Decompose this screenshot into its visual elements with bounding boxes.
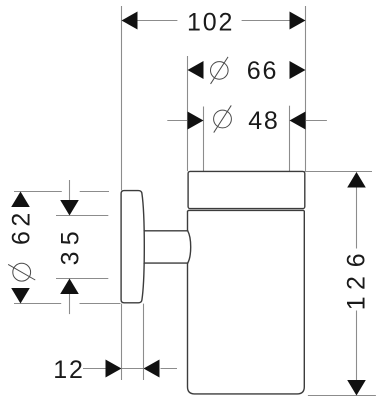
svg-text:102: 102 [187, 9, 234, 37]
svg-text:3: 3 [57, 250, 85, 266]
wire 12 dim line between exts [122, 368, 144, 370]
wire plate-face ext below plate [143, 304, 145, 380]
cup rim (ring) [188, 171, 305, 208]
svg-text:2: 2 [343, 274, 371, 290]
wire 35 top ext [56, 215, 108, 217]
svg-text:48: 48 [248, 107, 279, 135]
arrow dia62 bottom (points down) [11, 288, 30, 304]
wire 35 bottom ext [56, 278, 108, 280]
wire 126 dim line segments [356, 187, 358, 249]
object outline (dark) [121, 171, 305, 394]
arrow dia48 right (points left) [290, 112, 306, 130]
wire ext left of dia66 [187, 56, 189, 171]
arrow 12 left (points right) [106, 360, 122, 378]
wire ext right of dia48 [289, 106, 291, 172]
phi symbol for 62 (rotated) [13, 263, 31, 281]
svg-text:2: 2 [8, 211, 36, 227]
arm top edge [144, 230, 188, 232]
arm cap arc on cup [188, 231, 191, 263]
arm bottom edge [144, 262, 188, 264]
svg-text:66: 66 [247, 57, 278, 85]
wire ext left of dia48 [203, 107, 205, 172]
wire dia62 bottom ext [14, 303, 61, 305]
arrow 35 top (points down) [60, 200, 79, 216]
wire 12 dim leader left [83, 368, 107, 370]
wire ext right of 102 down to rim [305, 6, 307, 171]
wire 35 dim tail above [69, 180, 71, 202]
wire 35 dim tail below [69, 293, 71, 314]
svg-text:1: 1 [343, 295, 371, 311]
svg-text:12: 12 [53, 356, 84, 384]
wire 126 top ext [291, 171, 373, 173]
wire ext left of 102 / wall line above plate [121, 6, 123, 190]
wire wall line below plate [121, 304, 123, 380]
wire dia48 leader right [306, 120, 327, 122]
arrow 12 right (points left) [144, 360, 160, 378]
phi symbol for 66 [211, 62, 229, 80]
wire dia62 top ext [14, 191, 62, 193]
arrow 102 left [122, 12, 138, 30]
arrow 126 bottom (points down) [347, 380, 366, 396]
arrow 102 right [290, 12, 306, 30]
cup body [188, 210, 305, 394]
wall plate (escutcheon) [121, 191, 144, 303]
wire 102 dim line segments [137, 20, 178, 22]
arrow dia62 top (points up) [11, 192, 30, 208]
wire dia48 leader left [167, 120, 188, 122]
arrow 126 top (points up) [347, 172, 366, 188]
dimension lines (thin gray) [70, 21, 357, 383]
wire 12 dim leader right [161, 368, 178, 370]
arrow dia48 left (points right) [188, 112, 204, 130]
arrow dia66 left [188, 61, 204, 79]
arrow 35 bottom (points up) [60, 279, 79, 295]
svg-text:5: 5 [57, 230, 85, 246]
svg-text:6: 6 [8, 229, 36, 245]
arrow dia66 right [290, 61, 306, 79]
wire 126 bottom ext [308, 395, 376, 397]
phi symbols [8, 57, 231, 281]
svg-text:6: 6 [343, 252, 371, 268]
phi symbol for 48 [214, 110, 232, 128]
